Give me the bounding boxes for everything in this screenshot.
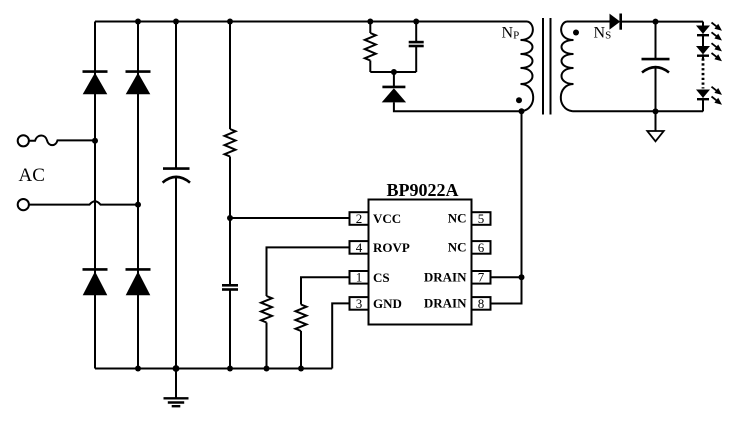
svg-text:8: 8 — [478, 296, 485, 311]
svg-text:3: 3 — [356, 296, 363, 311]
svg-text:1: 1 — [356, 270, 363, 285]
svg-text:DRAIN: DRAIN — [424, 296, 467, 311]
svg-text:CS: CS — [373, 270, 390, 285]
svg-text:AC: AC — [19, 165, 45, 186]
svg-text:NC: NC — [448, 240, 467, 255]
svg-text:GND: GND — [373, 296, 402, 311]
svg-text:VCC: VCC — [373, 211, 401, 226]
svg-text:2: 2 — [356, 211, 363, 226]
svg-text:NC: NC — [448, 211, 467, 226]
svg-text:DRAIN: DRAIN — [424, 270, 467, 285]
svg-text:ROVP: ROVP — [373, 240, 410, 255]
svg-text:NS: NS — [594, 24, 612, 41]
svg-text:BP9022A: BP9022A — [387, 180, 459, 200]
svg-text:4: 4 — [356, 240, 363, 255]
svg-text:6: 6 — [478, 240, 485, 255]
svg-text:7: 7 — [478, 270, 485, 285]
svg-text:5: 5 — [478, 211, 485, 226]
svg-text:NP: NP — [502, 25, 520, 42]
